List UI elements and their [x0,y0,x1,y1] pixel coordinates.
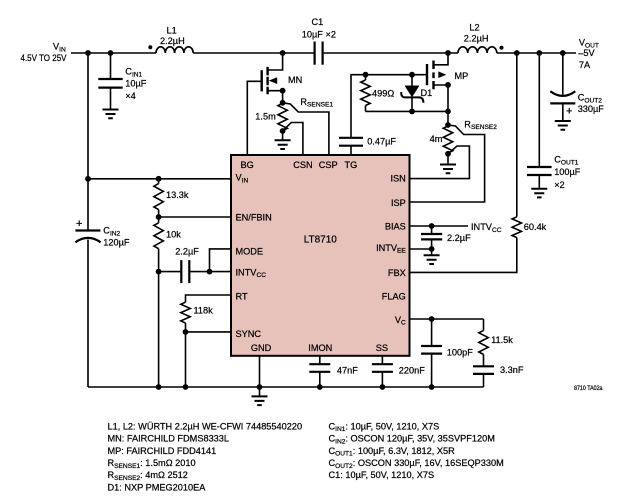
wire MN drain [268,53,283,70]
pin CSP [319,160,338,170]
svg-text:+: + [566,105,572,117]
wire MP source [434,85,449,126]
junction dots left column [85,176,212,335]
pin GND [251,343,272,353]
capacitor CIN2 label [76,218,130,247]
svg-text:13.3k: 13.3k [166,190,189,200]
ground below COUT2 [555,121,571,130]
junction dots TG bootstrap [363,72,451,115]
svg-text:×4: ×4 [125,91,135,101]
capacitor 100pF label [447,347,473,357]
note MN [108,434,230,444]
resistor 13.3k [154,179,163,217]
ground below CIN1 [103,110,119,119]
wire bootstrap bottom [366,110,449,112]
svg-text:0.47µF: 0.47µF [367,136,396,146]
wire RT pin [186,295,232,302]
svg-text:×2: ×2 [554,180,564,190]
svg-text:ISP: ISP [391,198,406,208]
note D1 [108,482,207,492]
pin VIN [236,173,249,185]
capacitor COUT1 label [554,155,581,191]
svg-text:RT: RT [236,291,248,301]
pin FBX [388,268,406,278]
capacitor 220nF label [399,365,425,375]
IC U1 LT8710 body [231,155,410,356]
svg-text:2.2µH: 2.2µH [464,34,489,44]
capacitor COUT1 [527,53,552,188]
note MP [108,446,217,456]
pin BG [241,160,254,170]
resistor RSENSE1 label [255,97,333,122]
pin INTVEE [376,243,406,255]
IC name LT8710 [304,234,338,245]
svg-text:EN/FBIN: EN/FBIN [236,212,272,222]
ground below RSENSE1 [275,140,291,149]
resistor 11.5k [479,319,488,366]
capacitor 0.47uF label [367,136,396,146]
note COUT2 [329,458,504,470]
transistor MN [262,67,268,94]
svg-text:GND: GND [251,343,272,353]
inductor L2 label [464,23,489,44]
junction dots bottom rail [156,384,435,390]
svg-text:SS: SS [376,343,388,353]
resistor 118k [181,302,190,387]
wire kelvin CSN [283,123,303,156]
transistor MP [427,61,434,90]
pin INTVCC [236,267,267,279]
resistor 11.5k label [491,335,513,345]
svg-text:TG: TG [345,160,358,170]
junction dots RSENSE2 [445,122,451,157]
svg-text:100pF: 100pF [447,347,473,357]
svg-text:+: + [76,218,82,230]
pin RT [236,291,248,301]
ground below COUT1 [531,189,547,198]
svg-text:LT8710: LT8710 [304,234,338,245]
capacitor CIN2 [75,231,100,243]
resistor 13.3k label [166,190,189,200]
junction dot VC [429,316,435,322]
svg-text:D1: D1 [421,88,433,98]
capacitor CIN1 [98,53,122,109]
capacitor 3.3nF [473,366,494,374]
pin ISN [390,173,405,183]
svg-text:47nF: 47nF [337,365,358,375]
resistor 10k label [166,230,181,240]
wire bottom ground rail [88,386,484,388]
diode D1 label [421,88,433,98]
resistor RSENSE1 [278,103,287,139]
resistor 60.4k [410,217,522,273]
capacitor 47nF IMON [309,356,330,387]
capacitor 47nF label [337,365,358,375]
svg-text:MN: MN [288,75,302,85]
svg-text:2.2µH: 2.2µH [160,36,185,46]
transistor MP label [455,71,469,81]
capacitor 220nF SS [372,356,393,387]
svg-text:FBX: FBX [388,268,406,278]
wire BIAS pin [410,225,469,227]
resistor 60.4k label [524,222,547,232]
note L1 L2 [108,421,303,431]
svg-text:IMON: IMON [308,343,332,353]
svg-text:10µF ×2: 10µF ×2 [302,29,336,39]
wire TG riser [351,75,427,138]
svg-text:120µF: 120µF [103,237,130,247]
pin SYNC [236,329,262,339]
capacitor 2.2uF MODE [159,260,231,283]
pin BIAS [385,222,406,232]
wire MODE pin [210,249,232,272]
transistor MN arrow [269,77,277,84]
transistor MP arrow [438,71,446,78]
svg-text:3.3nF: 3.3nF [500,365,524,375]
pin CSN [293,160,312,170]
diode D1 [401,75,423,112]
phase dot L2 [500,46,504,50]
svg-text:100µF: 100µF [554,167,581,177]
svg-text:7A: 7A [579,60,591,70]
wire FBX riser and 60.4k [516,53,518,217]
wire VC pin [410,318,484,320]
resistor 499 [361,75,370,112]
svg-text:BIAS: BIAS [385,222,406,232]
wire VIN pin [88,178,231,180]
svg-text:2.2µF: 2.2µF [447,233,471,243]
wire divider to bottom rail [158,272,160,387]
resistor 499 label [372,89,394,99]
svg-text:118k: 118k [194,306,214,316]
svg-text:ISN: ISN [390,173,405,183]
capacitor 2.2uF BIAS [421,226,442,249]
capacitor 3.3nF label [500,365,524,375]
wire MP drain [434,53,449,65]
note CIN2 [329,434,495,446]
wire EN/FBIN pin [159,216,231,218]
capacitor 100pF [421,319,442,387]
svg-text:330µF: 330µF [578,104,605,114]
resistor 118k label [194,306,214,316]
inductor L1 [156,47,193,53]
svg-text:L1, L2: WÜRTH 2.2µH WE-CFWI 74: L1, L2: WÜRTH 2.2µH WE-CFWI 74485540220 [108,421,303,431]
resistor RSENSE2 label [430,119,498,143]
svg-text:4.5V TO 25V: 4.5V TO 25V [21,53,68,63]
pin MODE [236,246,264,256]
capacitor 0.47uF [339,138,363,146]
svg-text:D1: NXP PMEG2010EA: D1: NXP PMEG2010EA [108,482,207,492]
svg-text:4m: 4m [430,134,443,144]
note C1 [329,470,435,480]
wire MN gate to BG [247,81,261,155]
svg-text:60.4k: 60.4k [524,222,547,232]
resistor RSENSE2 [443,126,452,164]
note RSENSE2 [108,470,188,482]
ground below GND pin [252,396,268,405]
wire kelvin CSP [283,103,329,155]
node VOUT label [578,38,599,70]
pin FLAG [382,291,406,301]
wire GND pin [259,356,261,396]
svg-text:1.5m: 1.5m [255,112,276,122]
svg-text:499Ω: 499Ω [372,89,394,99]
wire kelvin ISP [410,125,485,202]
node INTVCC label [471,222,502,234]
svg-text:MN: FAIRCHILD FDMS8333L: MN: FAIRCHILD FDMS8333L [108,434,230,444]
junction dots top rail [85,50,566,56]
svg-text:8710 TA02a: 8710 TA02a [574,385,603,392]
pin EN/FBIN [236,212,272,222]
capacitor 2.2uF MODE label [175,247,199,257]
wire SYNC pin [186,331,232,333]
wire top rail C1 to L2 [324,52,458,54]
svg-text:CSN: CSN [293,160,312,170]
wire top output rail [497,52,576,54]
svg-text:11.5k: 11.5k [491,335,513,345]
svg-text:MODE: MODE [236,246,264,256]
capacitor CIN1 label [125,67,147,101]
capacitor 2.2uF BIAS label [447,233,471,243]
resistor 10k [154,217,163,272]
phase dot L1 [148,45,152,49]
transistor MN label [288,75,302,85]
pin IMON [308,343,332,353]
figure number 8710 TA02a [574,385,603,392]
pin TG [345,160,358,170]
wire kelvin ISN [410,146,470,179]
svg-text:C1: C1 [312,17,324,27]
svg-text:220nF: 220nF [399,365,425,375]
svg-text:MP: MP [455,71,469,81]
svg-text:FLAG: FLAG [382,291,406,301]
node VIN label [21,42,68,64]
svg-text:C1: 10µF, 50V, 1210, X7S: C1: 10µF, 50V, 1210, X7S [329,470,435,480]
note COUT1 [329,446,456,458]
pin ISP [391,198,406,208]
inductor L2 [458,47,497,53]
junction dots MN branch [280,88,286,134]
ground below RSENSE2 [440,165,456,174]
svg-text:10k: 10k [166,230,181,240]
wire top input rail [71,52,314,54]
capacitor COUT2 [550,53,575,120]
wire 3.3nF to rail [483,374,485,387]
svg-text:L2: L2 [469,23,479,33]
svg-text:2.2µF: 2.2µF [175,247,199,257]
capacitor COUT2 label [566,93,604,118]
junction dots BIAS [429,223,435,252]
pin SS [376,343,388,353]
pin VC [395,315,406,327]
wire MN source [268,91,283,104]
svg-text:–5V: –5V [578,48,595,58]
ground below INTVEE [424,249,440,264]
capacitor C1 label [302,17,336,39]
note CIN1 [329,421,440,433]
inductor L1 label [160,26,185,46]
svg-text:10µF: 10µF [125,79,147,89]
svg-text:CSP: CSP [319,160,338,170]
svg-text:L1: L1 [167,26,177,36]
svg-text:MP: FAIRCHILD FDD4141: MP: FAIRCHILD FDD4141 [108,446,217,456]
note RSENSE1 [108,458,196,470]
wire INTVEE pin [410,248,432,250]
capacitor C1 [315,42,323,65]
wire TG pin [350,146,352,155]
svg-text:SYNC: SYNC [236,329,262,339]
wire left input vertical [87,53,89,387]
svg-text:BG: BG [241,160,254,170]
